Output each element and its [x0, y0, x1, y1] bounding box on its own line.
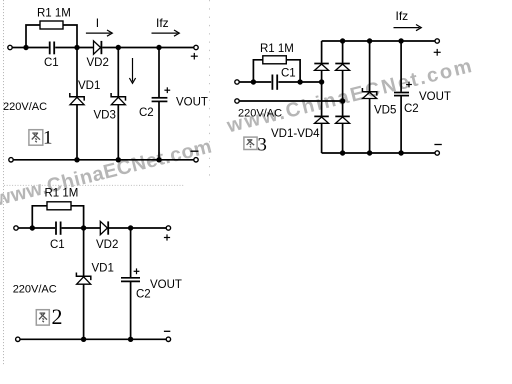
zener VD3 fig1: wire from node B down [117, 48, 119, 97]
diode VD top-left fig3 [314, 64, 329, 71]
junction dot wire1 bridge fig3 [319, 79, 324, 84]
wire C1 to node A fig2 [62, 227, 84, 229]
wire C2 to bottom fig3 [400, 96, 402, 153]
svg-text:C2: C2 [136, 289, 151, 301]
svg-text:VD1: VD1 [78, 80, 100, 92]
junction dot wire1 resistor-left fig3 [251, 79, 256, 84]
plus sign output fig2 [164, 234, 170, 240]
capacitor C2 fig3 [394, 92, 409, 94]
svg-text:VD1: VD1 [92, 263, 114, 275]
svg-text:220V/AC: 220V/AC [13, 284, 57, 296]
wire up to resistor R1 fig1 [26, 25, 40, 48]
frame border mid vertical dotted [209, 0, 211, 181]
junction dot wire2 bridge fig3 [340, 98, 345, 103]
zener VD1 fig2 [76, 273, 90, 285]
svg-text:R1 1M: R1 1M [37, 8, 71, 20]
capacitor C2 fig2 [121, 277, 140, 279]
wire node B to node C fig1 [118, 47, 159, 49]
zener VD5 fig3: wire from top [369, 41, 371, 91]
wire node C to + terminal fig1 [159, 47, 194, 49]
current arrow Ifz fig3 [394, 25, 422, 31]
svg-text:1: 1 [43, 128, 53, 149]
wire VD2 to node B fig1 [102, 47, 118, 49]
node: bottom-right terminal fig1 [194, 158, 198, 162]
wire node B to + terminal fig2 [131, 227, 167, 229]
wire resistor to right node fig2 [71, 206, 84, 228]
svg-text:Ifz: Ifz [396, 9, 409, 23]
plus sign C2 fig1 [164, 87, 170, 93]
wire resistor to right node fig1 [63, 25, 77, 48]
capacitor C2 fig1: wire from node C down [158, 48, 160, 98]
wire resistor right fig3 [286, 60, 300, 82]
wire C2 to bottom fig2 [130, 282, 132, 339]
wire up to resistor R1 fig2 [32, 206, 47, 228]
junction dot wire1 resistor-right fig3 [297, 79, 302, 84]
wire resistor left fig3 [253, 60, 262, 82]
diode VD2 fig1 [94, 41, 101, 54]
svg-text:C2: C2 [139, 107, 154, 119]
svg-text:C1: C1 [50, 239, 65, 251]
plus sign C2 fig3 [406, 82, 412, 88]
svg-text:C1: C1 [281, 68, 296, 80]
junction dot bottom VD3 fig1 [116, 157, 121, 162]
node: + output terminal fig2 [166, 226, 170, 230]
svg-text:I: I [96, 16, 99, 30]
svg-text:3: 3 [257, 134, 267, 155]
svg-text:VD5: VD5 [374, 105, 396, 117]
resistor R1 fig2 [47, 202, 71, 210]
bridge right rail fig3 [342, 41, 344, 63]
wire VD1 to bottom fig2 [83, 284, 85, 339]
diode VD2 fig2 [100, 221, 107, 234]
resistor R1 fig3 [263, 56, 287, 64]
svg-text:VD1-VD4: VD1-VD4 [271, 128, 320, 140]
node: bottom-right terminal fig2 [166, 337, 170, 341]
wire VD5 to bottom fig3 [369, 99, 371, 154]
wire input1 to C1 fig3 [239, 81, 271, 83]
zener VD1 fig2: wire from node A down [83, 228, 85, 276]
diode VD bottom-right fig3 [335, 116, 350, 123]
node: input terminal top fig1 [8, 45, 12, 49]
capacitor C2 fig1 [152, 97, 168, 99]
junction dot node A fig2 [81, 225, 86, 230]
svg-text:VD2: VD2 [96, 239, 118, 251]
zener VD3 fig1 [111, 93, 125, 105]
svg-text:VOUT: VOUT [176, 97, 208, 109]
zener VD1 fig1 [70, 93, 84, 105]
svg-text:R1 1M: R1 1M [45, 188, 79, 200]
junction dot node B fig1 [116, 45, 121, 50]
junction dot bottom right-rail fig3 [340, 150, 345, 155]
junction dot bottom VD1 fig2 [81, 337, 86, 342]
bridge left rail fig3 [321, 41, 323, 63]
junction dot node input fig2 [30, 225, 35, 230]
capacitor C1 fig2 [55, 222, 57, 235]
wire input2 to bridge right rail fig3 [239, 100, 342, 102]
junction dot top C2 fig3 [398, 38, 403, 43]
wire input to junction [12, 47, 26, 49]
junction dot top VD5 fig3 [367, 38, 372, 43]
svg-text:VD3: VD3 [94, 110, 116, 122]
svg-text:220V/AC: 220V/AC [3, 101, 47, 113]
wire bottom rail fig3 [322, 152, 435, 154]
node: + output terminal fig3 [435, 39, 439, 43]
minus sign output fig1 [191, 150, 199, 152]
plus sign output fig3 [434, 49, 441, 56]
wire junction to C1 fig2 [32, 227, 55, 229]
wire C1 to node A fig1 [55, 47, 77, 49]
node: bottom-left terminal fig1 [9, 158, 13, 162]
junction dot bottom C2 fig1 [156, 157, 161, 162]
capacitor C1 fig3 [271, 75, 273, 90]
node: input terminal 1 fig3 [235, 80, 239, 84]
svg-text:220V/AC: 220V/AC [238, 108, 282, 120]
label 图3 fig3 (hand-drawn CJK glyph) [244, 134, 267, 155]
label 图1 fig1 (hand-drawn CJK glyph) [29, 128, 53, 149]
svg-text:C2: C2 [404, 103, 419, 115]
minus sign output fig2 [164, 330, 170, 332]
resistor R1 fig1 [40, 21, 63, 29]
junction dot node input fig1 [23, 45, 28, 50]
wire C2 to bottom fig1 [158, 102, 160, 160]
junction dot node B fig2 [128, 225, 133, 230]
wire bottom rail fig2 [20, 338, 166, 340]
watermark www.ChinaECNet.com tile A [0, 135, 214, 210]
node: + output terminal fig1 [194, 45, 198, 49]
current arrow down fig1 [129, 58, 135, 83]
svg-text:VOUT: VOUT [150, 279, 182, 291]
junction dot bottom VD1 fig1 [74, 157, 79, 162]
svg-text:Ifz: Ifz [156, 16, 169, 30]
current arrow I fig1 [86, 30, 112, 36]
svg-text:R1 1M: R1 1M [260, 43, 294, 55]
capacitor C2 fig3: wire from top [400, 41, 402, 92]
plus sign output fig1 [191, 53, 198, 60]
minus sign output fig3 [434, 144, 441, 146]
junction dot node A fig1 [74, 45, 79, 50]
junction dot bottom C2 fig3 [398, 150, 403, 155]
zener VD5 fig3 [362, 88, 376, 99]
current arrow Ifz fig1 [152, 30, 180, 36]
label 图2 fig2 (hand-drawn CJK glyph) [36, 304, 62, 329]
wire C1 to bridge fig3 [278, 81, 321, 83]
node: input terminal 2 fig3 [235, 99, 239, 103]
wire node A to diode VD2 fig1 [77, 47, 94, 49]
svg-text:C1: C1 [44, 57, 59, 69]
node: bottom-left terminal fig2 [16, 337, 20, 341]
zener VD1 fig1: wire from node A down [76, 48, 78, 97]
frame border left dotted [3, 0, 5, 365]
svg-text:2: 2 [52, 304, 63, 329]
wire input to junction fig2 [18, 227, 32, 229]
capacitor C1 fig1 [49, 42, 51, 55]
junction dot top right-rail fig3 [340, 38, 345, 43]
wire VD3 to bottom fig1 [117, 105, 119, 160]
junction dot bottom VD5 fig3 [367, 150, 372, 155]
watermark www.ChinaECNet.com tile B [224, 55, 476, 138]
wire junction to C1 fig1 [26, 47, 49, 49]
diode VD top-right fig3 [335, 64, 350, 71]
svg-text:VD2: VD2 [87, 57, 109, 69]
plus sign C2 fig2 [134, 268, 140, 274]
capacitor C2 fig2: wire from node B down [130, 228, 132, 277]
svg-text:VOUT: VOUT [419, 91, 451, 103]
wire top rail fig3 [322, 40, 435, 42]
diode VD bottom-left fig3 [314, 116, 329, 123]
wire bottom rail fig1 [13, 159, 194, 161]
node: - output terminal fig3 [435, 151, 439, 155]
frame border horizontal dotted [4, 184, 184, 186]
junction dot bottom C2 fig2 [128, 337, 133, 342]
wire node A to diode VD2 fig2 [84, 227, 101, 229]
junction dot node C fig1 [156, 45, 161, 50]
node: input terminal top fig2 [14, 226, 18, 230]
wire VD2 to node B fig2 [109, 227, 131, 229]
wire VD1 to bottom fig1 [76, 105, 78, 160]
